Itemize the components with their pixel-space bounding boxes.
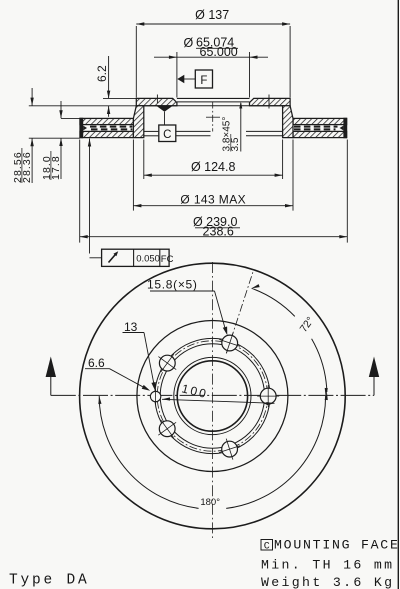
svg-text:C: C: [163, 129, 171, 141]
rim outer edge left: [80, 118, 83, 137]
dimension Ø143 MAX hat outer: [133, 140, 293, 211]
bolt circle mark right (section): [268, 95, 270, 109]
dimension Ø124.8 hat inner: [144, 140, 283, 180]
hat cavity far bottom edge lower: [144, 135, 159, 137]
outer circle Ø239: [80, 263, 346, 529]
svg-text:Ø 124.8: Ø 124.8: [191, 160, 236, 174]
svg-text:FC: FC: [161, 254, 174, 265]
svg-text:MOUNTING FACE: MOUNTING FACE: [274, 538, 400, 553]
bolt circle mark left (section): [156, 95, 158, 104]
dimension 28.56/28.36 overall width: [12, 88, 136, 183]
section view of vented brake disc: [12, 8, 347, 266]
svg-text:3.5: 3.5: [230, 137, 241, 151]
bore chamfer circle: [174, 357, 251, 434]
bolt hole 2 Ø15.8: [257, 385, 279, 407]
dimension Ø239.0/238.6 outer diameter: [80, 140, 348, 243]
vent vane dashes right row1: [294, 126, 338, 128]
bolt hole 5 Ø15.8: [158, 354, 176, 372]
svg-text:65.000: 65.000: [200, 45, 238, 59]
rim top plate left (hatched): [80, 118, 133, 124]
svg-text:Ø 143 MAX: Ø 143 MAX: [180, 193, 246, 207]
svg-text:Type DA: Type DA: [9, 573, 90, 589]
dimension 6.2 flange thickness: [95, 56, 136, 117]
vent vane dashes left row2: [91, 128, 132, 130]
vertical centerline: [211, 262, 213, 540]
front view of brake disc: [46, 262, 380, 540]
ring outer circle: [155, 338, 270, 453]
datum C mounting face: [156, 106, 176, 142]
bore far-side chamfer edge: [177, 101, 250, 103]
svg-text:Weight 3.6 Kg: Weight 3.6 Kg: [261, 575, 394, 589]
hat wall left (hatched): [133, 106, 143, 138]
svg-text:15.8(×5): 15.8(×5): [147, 278, 198, 292]
datum F flag (bore): [177, 70, 212, 88]
rim bottom plate left (hatched): [80, 131, 133, 137]
rim top plate right (hatched): [293, 118, 347, 124]
vent mouth wedge left: [83, 126, 87, 131]
svg-text:6.2: 6.2: [95, 65, 109, 82]
svg-text:238.6: 238.6: [203, 224, 234, 238]
bore circle Ø65: [177, 361, 247, 431]
hat wall right (hatched): [283, 106, 293, 138]
svg-text:28.36: 28.36: [21, 151, 33, 183]
label 13: [123, 320, 156, 391]
svg-text:0.050: 0.050: [136, 254, 160, 265]
label 15.8(x5) bolt holes: [147, 278, 227, 336]
dimension 3.8/3.5 x45° bore chamfer: [222, 102, 243, 152]
bore far-side top edge: [177, 97, 250, 99]
rim bottom plate right (hatched): [293, 131, 347, 137]
dimension Ø65.074/65.000 bore: [154, 36, 268, 98]
section arrow left: [46, 357, 56, 378]
bolt hole 3 Ø15.8: [219, 439, 240, 460]
vent vane dashes left row1: [90, 126, 132, 128]
bolt hole 1 Ø15.8: [219, 333, 240, 354]
hat outer circle Ø143: [137, 321, 288, 472]
dimension Ø137: [136, 8, 290, 98]
label 6.6 locating hole: [85, 356, 150, 391]
vent vane dashes right row2: [294, 128, 336, 130]
svg-text:Min. TH 16 mm: Min. TH 16 mm: [261, 558, 394, 573]
svg-text:Ø 137: Ø 137: [195, 8, 229, 22]
note C mounting face: [261, 538, 400, 553]
vent mouth wedge right: [340, 126, 344, 131]
svg-text:17.8: 17.8: [50, 155, 62, 180]
rim outer edge right: [344, 118, 347, 137]
svg-text:Ø: Ø: [184, 36, 194, 50]
dimension 18.0/17.8 rim thickness: [41, 101, 80, 180]
section arrow right: [369, 357, 379, 378]
svg-text:6.6: 6.6: [88, 356, 105, 370]
ring inner circle: [160, 344, 264, 448]
mounting face far edge: [144, 105, 283, 107]
dimension 100 bolt circle: [162, 381, 275, 405]
svg-text:180°: 180°: [200, 497, 220, 508]
hat cavity far bottom edge upper: [144, 130, 159, 132]
bolt hole 4 Ø15.8: [158, 420, 176, 438]
arc dimension 180°: [98, 388, 328, 509]
svg-text:C: C: [264, 541, 270, 552]
hat flange right (hatched): [250, 98, 291, 105]
radial chain line through top bolt hole: [226, 272, 253, 354]
bolt circle Ø100 (chain line): [157, 341, 267, 451]
locating hole Ø6.6: [150, 389, 160, 405]
section cutting plane line: [51, 394, 374, 396]
arc dimension 72°: [252, 284, 328, 400]
section centerline: [212, 102, 214, 132]
runout tolerance frame 0.050 FC: [88, 139, 174, 267]
hat flange left (hatched): [136, 98, 177, 105]
svg-text:F: F: [200, 75, 207, 87]
svg-text:13: 13: [124, 320, 138, 334]
right border line: [397, 0, 399, 589]
